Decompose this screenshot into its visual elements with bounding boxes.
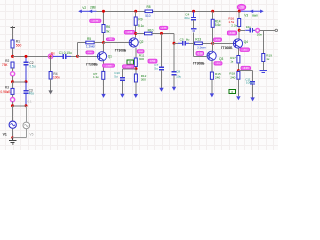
wire — [194, 55, 207, 57]
junction collector T4 — [238, 29, 241, 32]
capacitor C1 — [62, 54, 64, 59]
svg-text:-1.98: -1.98 — [127, 31, 133, 34]
wire — [12, 128, 14, 137]
wire — [12, 82, 14, 89]
wire — [135, 25, 137, 37]
transistor Q3 GT308B — [207, 51, 216, 60]
svg-text:R13: R13 — [195, 37, 201, 41]
ground arrow — [172, 87, 176, 91]
junction — [11, 55, 14, 58]
svg-text:-27.98: -27.98 — [92, 21, 99, 23]
svg-text:5u: 5u — [114, 75, 118, 79]
svg-text:-0.64: -0.64 — [126, 66, 132, 68]
svg-text:40u: 40u — [29, 92, 35, 96]
svg-text:V5: V5 — [29, 133, 33, 137]
wire emitter — [103, 61, 105, 71]
output node ring — [256, 29, 260, 33]
wire — [12, 94, 14, 97]
node annotation — [240, 48, 250, 51]
svg-text:0.1: 0.1 — [28, 100, 33, 104]
wire power rail — [97, 10, 240, 12]
wire — [25, 82, 27, 91]
wire — [252, 71, 254, 82]
wire — [12, 106, 14, 121]
svg-text:560: 560 — [16, 44, 22, 48]
wire — [212, 27, 214, 51]
wire to Q1 base — [78, 55, 98, 57]
capacitor C11 — [250, 81, 255, 83]
svg-text:5.6к: 5.6к — [215, 23, 221, 27]
wire — [237, 63, 239, 71]
wire bias line — [77, 42, 86, 44]
wire — [262, 30, 264, 53]
wire — [245, 29, 250, 31]
svg-text:ГТ308Б: ГТ308Б — [115, 48, 127, 52]
wire base T4 — [213, 42, 234, 44]
svg-text:-0.98: -0.98 — [197, 51, 203, 55]
svg-text:V1: V1 — [3, 133, 7, 137]
wire output — [239, 29, 245, 31]
resistor R13 — [195, 42, 203, 45]
resistor R4 — [49, 72, 52, 80]
wire — [76, 43, 78, 57]
wire — [66, 55, 71, 57]
wire — [193, 11, 195, 17]
wire to T3 base — [193, 33, 195, 57]
junction — [173, 42, 176, 45]
wire — [185, 42, 189, 44]
capacitor C8 — [172, 71, 177, 73]
wire — [13, 105, 27, 107]
svg-text:Q2: Q2 — [139, 40, 143, 44]
wire — [161, 33, 163, 66]
svg-text:Q4: Q4 — [244, 40, 248, 44]
node annotation — [103, 64, 115, 67]
svg-text:ГТ308Б: ГТ308Б — [221, 46, 233, 50]
wire emitter — [237, 48, 239, 55]
junction rail — [134, 10, 137, 13]
source V1 (sine) — [9, 121, 16, 128]
wire — [193, 20, 195, 28]
output terminal — [275, 29, 277, 31]
node annotation — [227, 31, 236, 35]
svg-text:-0.64В: -0.64В — [106, 65, 113, 67]
svg-text:R9: R9 — [138, 17, 142, 21]
capacitor C4 — [191, 17, 196, 19]
resistor R11 — [134, 58, 137, 67]
resistor R15 — [210, 72, 213, 79]
ground arrow — [250, 97, 254, 101]
svg-text:1к: 1к — [230, 59, 234, 63]
svg-text:240: 240 — [215, 75, 220, 79]
svg-text:Вх: Вх — [51, 52, 55, 56]
junction collector T1 — [102, 41, 105, 44]
svg-text:5u: 5u — [154, 67, 158, 71]
junction emitter — [237, 69, 240, 72]
svg-text:240: 240 — [230, 75, 235, 79]
svg-text:R5: R5 — [87, 37, 91, 41]
svg-text:0.98кБ: 0.98кБ — [0, 90, 10, 94]
svg-text:10u: 10u — [246, 25, 251, 29]
resistor R10 — [145, 32, 153, 35]
wire — [71, 55, 78, 57]
node annotation — [148, 59, 157, 63]
svg-text:20в: 20в — [257, 32, 262, 36]
svg-text:2.2к: 2.2к — [231, 23, 237, 27]
wire — [238, 27, 240, 39]
wire — [237, 79, 239, 96]
svg-text:8u: 8u — [186, 38, 190, 42]
junction — [25, 80, 28, 83]
node annotation — [160, 26, 168, 29]
resistor R12 — [134, 74, 137, 82]
wire — [103, 33, 105, 43]
node annotation — [106, 38, 114, 41]
wire — [173, 34, 175, 44]
junction emitter — [135, 67, 138, 70]
wire — [178, 42, 183, 44]
node annotation — [214, 62, 222, 65]
resistor R16 — [238, 19, 241, 27]
wire — [50, 79, 52, 91]
svg-text:С8: С8 — [176, 70, 180, 74]
battery V3 (right, blue arrow symbol) — [240, 10, 262, 12]
source V5 (disabled, gray) — [23, 122, 30, 129]
junction rail — [211, 10, 214, 13]
node annotation — [137, 50, 144, 53]
node annotation — [196, 52, 204, 56]
capacitor C3 — [24, 90, 29, 92]
probe node ring — [11, 98, 15, 102]
capacitor C10 — [120, 77, 125, 79]
svg-text:V2: V2 — [82, 6, 86, 10]
svg-text:Q3: Q3 — [219, 57, 223, 61]
svg-text:9к: 9к — [106, 29, 110, 33]
input terminal — [10, 27, 15, 29]
wire — [25, 56, 27, 62]
node annotation -28 (ellipse) — [237, 4, 245, 10]
ground (classic blue) — [191, 28, 197, 30]
svg-text:0.5u: 0.5u — [29, 64, 35, 68]
wire — [103, 43, 105, 52]
wire — [121, 81, 123, 94]
wire — [13, 137, 27, 139]
transistor Q2 GT308B — [129, 38, 138, 47]
wire — [189, 42, 195, 44]
node annotation -27.98 — [90, 19, 101, 22]
resistor R7 — [102, 71, 105, 79]
wire — [238, 11, 240, 18]
wire — [238, 70, 252, 72]
resistor R6 — [102, 25, 105, 33]
wire — [25, 65, 27, 82]
wire — [12, 68, 14, 72]
wire — [202, 42, 212, 44]
wire — [135, 11, 137, 17]
wire — [135, 47, 137, 58]
junction — [160, 32, 163, 35]
junction collector T2 — [134, 32, 137, 35]
node annotation — [124, 30, 134, 34]
op annotation green box — [229, 90, 236, 94]
node annotation — [241, 66, 251, 70]
wire — [253, 29, 256, 31]
svg-text:100к: 100к — [53, 76, 60, 80]
resistor R19 load — [262, 54, 265, 62]
wire — [152, 33, 174, 35]
resistor R18 — [237, 72, 240, 80]
resistor R5 — [86, 41, 94, 44]
wire — [135, 82, 137, 94]
wire — [25, 129, 27, 138]
svg-text:Q1: Q1 — [108, 55, 112, 59]
wire — [252, 85, 254, 98]
junction collector T3 — [211, 42, 214, 45]
wire — [12, 48, 14, 56]
wire — [237, 70, 239, 73]
transistor Q1 GT308B — [97, 52, 106, 61]
wire — [211, 79, 213, 93]
svg-text:С5: С5 — [180, 38, 184, 42]
wire — [212, 11, 214, 19]
probe node ring — [11, 72, 15, 76]
resistor R1 — [11, 40, 14, 48]
svg-text:1.1к: 1.1к — [93, 75, 99, 79]
ground arrow — [120, 94, 124, 98]
wire emitter — [211, 61, 213, 72]
junction — [25, 55, 28, 58]
svg-text:300: 300 — [139, 57, 144, 61]
svg-text:10u: 10u — [176, 75, 181, 79]
node annotation — [214, 38, 222, 41]
wire — [12, 76, 14, 82]
junction — [76, 55, 79, 58]
svg-text:30u: 30u — [184, 16, 189, 20]
svg-text:5.1к: 5.1к — [138, 24, 144, 28]
svg-text:75К: 75К — [2, 63, 8, 67]
capacitor C5 — [182, 41, 184, 46]
wire input line — [13, 55, 51, 57]
ground arrow — [101, 94, 105, 98]
wire — [25, 106, 27, 122]
wire — [173, 75, 175, 87]
svg-text:3.3мег: 3.3мег — [197, 46, 207, 50]
wire base T2 — [104, 42, 129, 44]
op annotation green box — [127, 60, 134, 64]
branch: capacitor C8 to ground — [173, 43, 175, 71]
capacitor C7 — [159, 66, 164, 68]
junction — [11, 104, 14, 107]
capacitor C2 — [24, 61, 29, 63]
svg-text:ГТ308Б: ГТ308Б — [193, 61, 205, 65]
battery V2 (left, blue arrow symbol) — [81, 10, 97, 12]
svg-text:1.3мег: 1.3мег — [86, 45, 96, 49]
resistor R17 — [237, 56, 240, 64]
junction — [11, 80, 14, 83]
wire — [161, 70, 163, 88]
svg-text:-3.06: -3.06 — [243, 67, 249, 70]
junction — [11, 136, 13, 138]
svg-text:-3.06: -3.06 — [215, 40, 221, 42]
junction rail — [238, 10, 241, 13]
svg-text:100u: 100u — [246, 81, 253, 85]
transistor Q4 GT308B — [233, 39, 242, 48]
svg-text:0: 0 — [129, 61, 131, 65]
wire link — [136, 33, 145, 35]
svg-text:300: 300 — [141, 78, 146, 82]
node annotation — [123, 65, 135, 68]
wire — [53, 55, 63, 57]
svg-text:-3.06: -3.06 — [229, 31, 236, 35]
svg-text:ГТ308Б: ГТ308Б — [86, 63, 98, 67]
resistor R2 — [11, 62, 14, 68]
ground (classic blue) — [260, 70, 267, 72]
svg-text:1к: 1к — [266, 57, 270, 61]
wire — [135, 69, 137, 74]
ground arrow — [210, 93, 214, 97]
svg-text:28В: 28В — [90, 5, 96, 9]
capacitor C6 — [249, 28, 251, 32]
wire — [260, 29, 276, 31]
wire — [94, 42, 103, 44]
wire — [122, 68, 135, 70]
node annotation — [86, 51, 94, 54]
svg-text:R10: R10 — [148, 28, 154, 32]
ground arrow — [134, 94, 138, 98]
wire — [50, 56, 52, 71]
svg-text:0.56: 0.56 — [150, 59, 156, 63]
wire — [12, 102, 14, 106]
wire — [13, 81, 27, 83]
wire — [121, 69, 123, 77]
junction rail — [192, 10, 195, 13]
wire — [103, 11, 105, 24]
resistor R3 — [11, 88, 14, 94]
svg-text:510: 510 — [145, 14, 151, 18]
junction rail — [102, 10, 105, 13]
junction — [25, 104, 28, 107]
wire — [103, 79, 105, 94]
resistor R8 — [145, 10, 153, 13]
input node Vx — [48, 54, 52, 58]
svg-text:V3: V3 — [244, 13, 248, 17]
svg-text:вых: вых — [252, 13, 258, 17]
wire — [135, 67, 137, 69]
ground arrow — [236, 96, 240, 100]
svg-text:-28: -28 — [239, 6, 244, 10]
wire — [25, 93, 27, 105]
ground (classic) — [12, 138, 14, 141]
svg-text:0.56: 0.56 — [109, 39, 112, 41]
resistor R9 — [134, 17, 137, 25]
ground arrow — [48, 90, 52, 94]
svg-text:R8: R8 — [147, 5, 151, 9]
wire — [262, 62, 264, 70]
ground arrow — [159, 88, 163, 92]
resistor R14 — [211, 19, 214, 27]
svg-text:0.56: 0.56 — [88, 52, 91, 54]
wire — [12, 28, 14, 40]
wire — [174, 42, 178, 44]
